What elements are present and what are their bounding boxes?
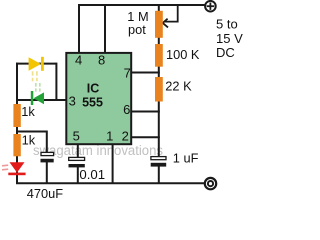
- wire pot wiper arm: [165, 4, 178, 22]
- svg-text:555: 555: [82, 95, 103, 109]
- wire V+ top rail: [79, 4, 205, 6]
- wire pin 3 to LED pair: [16, 99, 66, 101]
- LED red D3: [10, 162, 25, 172]
- svg-text:470uF: 470uF: [27, 186, 63, 201]
- svg-text:3: 3: [69, 93, 76, 108]
- svg-text:4: 4: [75, 52, 82, 67]
- terminal V+ positive: [205, 1, 216, 12]
- svg-text:22 K: 22 K: [165, 79, 192, 94]
- svg-text:100 K: 100 K: [166, 47, 200, 62]
- LED yellow D1: [29, 57, 41, 71]
- wire junction to 470uF cap: [17, 132, 47, 154]
- svg-text:1k: 1k: [21, 104, 35, 119]
- svg-text:0.01: 0.01: [79, 167, 105, 182]
- wire pin 6 to 22K/1uF junction: [131, 111, 160, 113]
- wire pin 7 to 100K/22K junction: [131, 72, 160, 74]
- LED yellow rays: [32, 71, 34, 81]
- wire below 1k to red LED and ground: [16, 154, 18, 184]
- svg-text:2: 2: [122, 129, 129, 144]
- svg-text:1: 1: [106, 129, 113, 144]
- resistor 22K body: [155, 77, 163, 102]
- resistor R 1k upper body: [13, 104, 20, 127]
- resistor 100K body: [155, 44, 163, 67]
- wire pin 4 to top rail: [78, 4, 80, 53]
- svg-text:1 uF: 1 uF: [173, 151, 199, 166]
- terminal output: [205, 178, 216, 189]
- svg-text:pot: pot: [128, 22, 146, 37]
- svg-text:5: 5: [73, 129, 80, 144]
- svg-text:6: 6: [123, 102, 130, 117]
- wire 1uF bottom lead: [158, 166, 160, 184]
- wire pin 5 to 0.01 cap: [77, 144, 79, 158]
- wire pin 2 to rail: [131, 136, 160, 138]
- wire between 1k resistors: [16, 125, 18, 136]
- wire 470uF bottom lead: [46, 162, 48, 184]
- svg-text:8: 8: [98, 52, 105, 67]
- capacitor 1uF plates: [151, 157, 166, 160]
- svg-text:7: 7: [124, 66, 131, 81]
- wire 0.01 bottom lead: [77, 167, 79, 184]
- wire pin 8 to top rail: [104, 4, 106, 53]
- LED red rays: [2, 164, 8, 167]
- wire LED loop top branch: [16, 63, 56, 65]
- resistor R 1k lower body: [13, 134, 20, 156]
- wire LED loop left vertical: [16, 63, 18, 105]
- wire right rail through pot, 100K, 22K to 1uF: [158, 4, 160, 157]
- pot wiper arrowhead: [163, 19, 168, 28]
- capacitor 470uF plates: [41, 152, 54, 155]
- wire ground rail bottom: [16, 182, 205, 184]
- svg-text:15 V: 15 V: [216, 31, 243, 46]
- svg-text:DC: DC: [216, 45, 235, 60]
- wire pin 1 to ground: [112, 144, 114, 184]
- potentiometer VR1 1M body: [155, 11, 163, 38]
- svg-text:IC: IC: [87, 82, 100, 96]
- wire LED loop right vertical: [55, 63, 57, 101]
- svg-text:1k: 1k: [22, 133, 36, 148]
- op IC U1 555 timer body: [66, 53, 131, 144]
- capacitor 0.01 plates: [69, 157, 85, 160]
- svg-text:5 to: 5 to: [216, 16, 238, 31]
- LED green rays: [35, 83, 37, 92]
- LED green D2: [34, 92, 45, 104]
